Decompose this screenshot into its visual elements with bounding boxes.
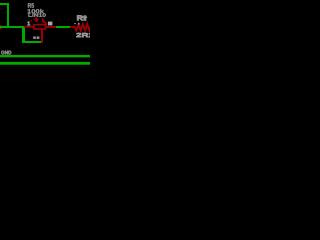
pin 3 wiper (bottom) (41, 29, 43, 43)
port stub (off-sheet connection, left) (0, 25, 2, 29)
wire top-left horizontal (0, 3, 9, 5)
pin dot marks (74, 23, 76, 24)
wire bottom net A (0, 55, 90, 57)
wire lower loop horizontal (22, 41, 41, 43)
trimmer slot bar (42, 18, 44, 22)
wiper arrow shaft (36, 17, 38, 19)
origin cross R2 (84, 17, 87, 18)
wire bottom net B (0, 62, 90, 65)
potentiometer R1 body (34, 25, 46, 29)
name text Rt (77, 15, 86, 20)
name text R5 (28, 3, 34, 7)
pin 2 (right) (46, 26, 56, 28)
wire main horizontal (0, 26, 24, 28)
value text 2R2 (76, 33, 93, 37)
resistor R2 pin (left) (70, 26, 76, 28)
wiper arrow (33, 19, 39, 23)
trimmer diagonal (43, 21, 47, 25)
net label GND (1, 51, 11, 55)
pin number 3 (blob) (33, 36, 36, 39)
resistor R2 zigzag (75, 24, 92, 30)
pin 1 (left) (24, 26, 33, 28)
value text line2 (27, 9, 44, 13)
value text line3 (28, 13, 45, 17)
stray mark (30, 20, 32, 22)
wire right horizontal (56, 26, 70, 28)
wire branch vertical (22, 26, 25, 42)
pin number 1 (28, 22, 31, 26)
pin number 2 (blob) (48, 22, 52, 26)
wire left vertical (7, 3, 9, 27)
